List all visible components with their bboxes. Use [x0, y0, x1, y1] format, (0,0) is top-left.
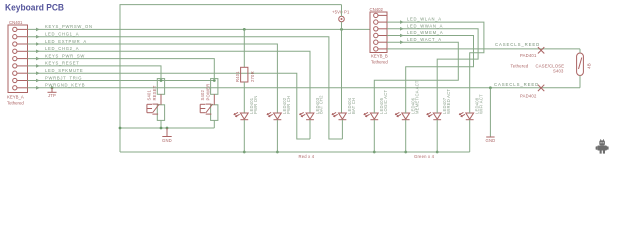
svg-text:PAD402: PAD402 [520, 94, 537, 99]
ground GND (switches) [162, 128, 172, 143]
switch S401 RESET [147, 79, 165, 128]
svg-text:CN402: CN402 [370, 7, 384, 12]
wire row4 to col3 anode [28, 51, 311, 113]
svg-text:LED_WWAN_A: LED_WWAN_A [407, 23, 443, 28]
junction row1/col4 [340, 28, 343, 31]
LED402 PWR CH [267, 96, 291, 154]
net name labels [45, 24, 93, 87]
CN402 pin5 wire to LED405 [374, 42, 458, 113]
connector CN402 [370, 7, 389, 65]
wire row5 to S402 POWER [28, 59, 215, 79]
resistor R401 [235, 29, 255, 113]
LED401 PWR ON [234, 96, 258, 154]
svg-text:CASECLS_REED: CASECLS_REED [494, 82, 539, 87]
svg-text:GND: GND [486, 138, 496, 143]
svg-text:R401: R401 [235, 71, 240, 82]
svg-text:PWRBJT_TRIG: PWRBJT_TRIG [45, 75, 82, 80]
LED404 BAT CH [332, 97, 356, 139]
svg-text:PWR CH: PWR CH [286, 96, 291, 114]
CN402 pin4 wire to LED406 [387, 36, 474, 114]
pad PAD401 [520, 47, 544, 58]
svg-text:JTP: JTP [48, 93, 56, 98]
wire row9 GND / CASECLS lower to reed [28, 87, 581, 89]
wire top loop [120, 5, 342, 152]
svg-text:MEMETICA ACT: MEMETICA ACT [414, 80, 419, 114]
svg-text:Red x 4: Red x 4 [299, 154, 315, 159]
svg-text:CN401: CN401 [9, 20, 23, 25]
svg-text:LED_EXTPWR_A: LED_EXTPWR_A [45, 39, 87, 44]
LED406 MEMORY ACT [395, 80, 419, 153]
wire row3 to col2 anode [28, 44, 278, 113]
svg-text:Green x 4: Green x 4 [414, 154, 435, 159]
svg-text:GND: GND [162, 138, 172, 143]
connector CN401 [7, 20, 28, 106]
svg-text:PWR ON: PWR ON [253, 96, 258, 114]
CN402 net label arrows [400, 20, 404, 44]
svg-text:LED_WACT_A: LED_WACT_A [407, 37, 442, 42]
ground JTP [48, 88, 57, 98]
svg-text:POWER: POWER [205, 84, 210, 101]
svg-text:WIFI ACT: WIFI ACT [478, 94, 483, 114]
svg-text:BAT CH: BAT CH [351, 98, 356, 114]
LED cathode rail [120, 151, 470, 153]
reed switch S403 [577, 49, 592, 88]
svg-text:KEYB_B: KEYB_B [371, 54, 388, 59]
CN402 pin3 wire to LED407 [387, 29, 478, 113]
svg-text:PAD401: PAD401 [520, 53, 537, 58]
wire col4 anode from row1 [341, 29, 343, 113]
svg-text:KEYB_A: KEYB_A [7, 95, 24, 100]
CN402 pin6 wire CASECLS upper to reed [387, 48, 580, 50]
svg-text:CASECLS_REED: CASECLS_REED [495, 42, 540, 47]
svg-text:LED_SPKMUTE: LED_SPKMUTE [45, 68, 83, 73]
svg-text:BAT CH2: BAT CH2 [319, 95, 324, 114]
svg-text:S403: S403 [553, 69, 564, 74]
junction row1/R401 [243, 28, 246, 31]
svg-text:RESET: RESET [152, 85, 157, 100]
svg-text:KEYS_RESET: KEYS_RESET [45, 61, 79, 66]
svg-text:Keyboard PCB: Keyboard PCB [5, 2, 64, 13]
LED405 LOGIC ACT [364, 90, 388, 154]
CN401 pins (9 circles) [13, 27, 28, 90]
svg-text:Tethered: Tethered [371, 60, 388, 65]
switch ground rail [120, 127, 214, 129]
net label arrows row1-9 [36, 28, 40, 90]
LED403 BAT CH2 [300, 95, 324, 139]
svg-text:Tethered: Tethered [7, 101, 24, 106]
svg-text:LED_CHG1_A: LED_CHG1_A [45, 32, 79, 37]
svg-text:WIRED ACT: WIRED ACT [446, 89, 451, 114]
LED407 WIRED ACT [427, 89, 451, 154]
wire row6 to S401 RESET [28, 66, 162, 79]
wire row8 to switch second poles [28, 80, 215, 82]
svg-text:270R: 270R [250, 71, 255, 82]
svg-text:LED_WLAN_A: LED_WLAN_A [407, 17, 442, 22]
wire row2 to col4 cathode return [28, 37, 343, 139]
supply +5V0 P1 [332, 5, 350, 30]
svg-text:S402: S402 [200, 89, 205, 100]
svg-text:LOGIC ACT: LOGIC ACT [383, 90, 388, 114]
ground GND (reed) [486, 86, 496, 143]
svg-text:S401: S401 [147, 89, 152, 100]
LED408 WIFI ACT [459, 94, 483, 152]
robot icon [596, 139, 609, 153]
CN402 pin2 wire to LED408 [387, 22, 484, 113]
pad PAD402 [520, 85, 544, 99]
wire row1 (+5V0 net) [28, 28, 371, 30]
svg-text:KEYS_PWRSW_ON: KEYS_PWRSW_ON [45, 24, 93, 29]
svg-text:KEYS_PWR_SW: KEYS_PWR_SW [45, 53, 85, 58]
CN402 net labels [407, 17, 443, 42]
wire row7 to col3 cathode return [28, 73, 311, 139]
svg-text:LED_WMEM_A: LED_WMEM_A [407, 30, 443, 35]
switch S402 POWER [200, 79, 218, 128]
svg-text:4B: 4B [587, 63, 592, 69]
svg-text:LED_CHG2_A: LED_CHG2_A [45, 46, 79, 51]
svg-text:Tethered: Tethered [511, 63, 529, 68]
